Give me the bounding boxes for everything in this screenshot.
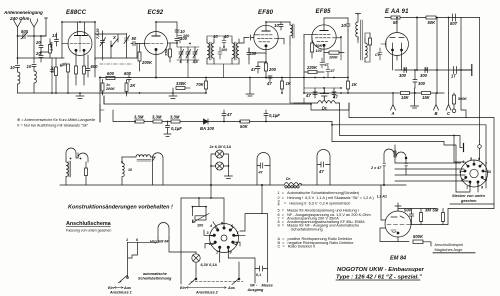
wire T1 top feeds — [207, 36, 232, 39]
ground (antenna bus) — [76, 93, 84, 99]
wire node to 1000 — [41, 36, 48, 52]
junction dots misc — [40, 17, 427, 163]
label Stecker von unten gesehen — [452, 194, 486, 203]
socket pin stubs (right socket) — [461, 160, 488, 186]
capacitor 13 — [52, 33, 59, 46]
svg-text:1 = Automatische Scharfabst: 1 = Automatische Scharfabstimmung(Schalt… — [278, 191, 361, 195]
capacitor 600 right of tube — [86, 64, 98, 77]
svg-text:10: 10 — [10, 65, 15, 70]
svg-text:Fassung von unten gesehen: Fassung von unten gesehen — [66, 229, 111, 233]
IF transformer T2 secondary coil — [237, 39, 239, 64]
wire NF output — [220, 258, 255, 283]
tube EF85 — [312, 18, 336, 62]
dial lamp 2 — [216, 162, 224, 170]
capacitor 10 (EF80 plate) — [274, 22, 283, 30]
svg-text:X: X — [112, 35, 116, 40]
wire x461 vertical — [461, 18, 466, 118]
resistor 3,3M c — [170, 115, 180, 124]
resistor 3M — [420, 208, 432, 225]
label Anschlussbeispiel Magisches Auge — [435, 243, 464, 252]
resistor 200 (EF80 cathode) — [265, 63, 277, 78]
svg-text:5 = Masse für Anodenspannun: 5 = Masse für Anodenspannung und Heizung… — [278, 208, 359, 212]
svg-text:Scharfabstimmung: Scharfabstimmung — [138, 277, 172, 281]
wire EF85 grid left — [304, 34, 312, 43]
svg-text:4: 4 — [278, 202, 280, 206]
wire EC92 grid left — [144, 43, 146, 45]
svg-text:13: 13 — [52, 33, 57, 38]
svg-text:2K: 2K — [129, 83, 136, 88]
label automatische Scharfabstimmung — [138, 272, 172, 281]
svg-text:B: B — [435, 111, 438, 116]
wire Masse riser — [240, 185, 268, 282]
ground mid1 — [246, 78, 254, 97]
wire y58 bus — [18, 57, 65, 59]
terminal circle (socket top) — [478, 141, 482, 160]
svg-text:1.000: 1.000 — [50, 41, 54, 51]
resistor 35M — [165, 43, 172, 62]
resistor 1K b — [347, 78, 358, 94]
lamp 6,3V 0,1A — [189, 252, 217, 270]
svg-text:47: 47 — [318, 169, 324, 174]
wire ground bus left — [18, 92, 207, 94]
svg-text:40: 40 — [223, 34, 229, 39]
resistor 3,3M b — [152, 115, 162, 124]
wire EF80 screen right — [278, 38, 284, 44]
wire EF80 cathode down — [249, 48, 266, 64]
svg-text:EC92: EC92 — [148, 10, 164, 16]
svg-text:X = Nur bei Ausführung mit Ska: X = Nur bei Ausführung mit Skalasatz “Sk… — [17, 124, 89, 128]
svg-text:4: 4 — [209, 224, 212, 228]
label Antenneneingang — [3, 10, 43, 21]
svg-text:4: 4 — [461, 160, 464, 164]
dashed link Anschluss 2 — [191, 281, 243, 283]
svg-text:200: 200 — [268, 67, 277, 72]
capacitor 10 (ratio det) — [341, 18, 350, 31]
svg-text:2 x 47: 2 x 47 — [370, 166, 382, 170]
svg-text:Aus: Aus — [227, 286, 235, 290]
junction dots stair — [331, 124, 455, 137]
choke Dr. (HF) — [294, 101, 340, 111]
svg-text:10: 10 — [27, 64, 32, 69]
capacitor 300 mid — [413, 70, 426, 88]
svg-text:= Heizung II 6,3 V 0,2 A s: = Heizung II 6,3 V 0,2 A symmetrisch — [284, 202, 350, 206]
terminal T (ratio det top) — [356, 14, 361, 16]
wire bus stair y141.5 — [332, 142, 456, 193]
IF transformer T2 primary coil — [232, 39, 236, 64]
switch Anschluss 2 (left blade) — [189, 270, 197, 285]
svg-text:2 = Heizung I 6,3 V 1,1 A: 2 = Heizung I 6,3 V 1,1 A ( mit Skalasat… — [278, 196, 375, 200]
capacitor 50 (EC92 grid) — [131, 36, 145, 46]
resistor 50K/100 (EF85 grid) — [311, 37, 323, 58]
terminal C — [446, 93, 451, 116]
resistor 3,3M a — [134, 115, 144, 124]
wire bus y93 right — [304, 92, 444, 94]
svg-text:EF85: EF85 — [316, 9, 332, 15]
capacitor 100 h — [178, 34, 190, 43]
grid cap EF80 — [239, 35, 254, 43]
resistor ratio det — [369, 33, 372, 50]
wire tuner verticals — [95, 31, 127, 60]
IF transformer T1 secondary coil — [212, 34, 219, 64]
wire socket bottom — [456, 182, 478, 192]
capacitor 40 — [222, 34, 229, 47]
title NOGOTON — [336, 267, 425, 280]
wire EM84 grid left from bus — [365, 207, 392, 228]
svg-text:Anschluss 2: Anschluss 2 — [195, 291, 219, 295]
trimmer 3.5 — [193, 47, 199, 64]
resistor 100K — [324, 51, 344, 60]
tube EAA91 — [381, 33, 409, 56]
svg-text:600: 600 — [124, 71, 132, 76]
resistor 2K — [125, 80, 136, 96]
wire Hzg loop legs — [128, 238, 197, 252]
svg-text:50K: 50K — [240, 124, 249, 129]
annotation left (antenna notes) — [17, 118, 95, 128]
ground (lamps) — [224, 176, 232, 179]
terminal B — [434, 93, 439, 116]
junction dots frame — [192, 197, 212, 207]
svg-text:Ein: Ein — [180, 286, 186, 290]
tube EM84 (magic eye) — [385, 203, 411, 237]
wire bus stair x339.5 — [340, 103, 466, 162]
trimmer capacitor 500 — [18, 29, 35, 39]
capacitor 10 (right) — [27, 64, 37, 69]
svg-text:6,3V 0,1A: 6,3V 0,1A — [201, 263, 218, 267]
junction dots EC92 — [99, 21, 178, 78]
diode BA100 — [200, 119, 215, 131]
resistor 5M — [433, 208, 445, 225]
svg-text:0,1µF: 0,1µF — [269, 113, 280, 118]
svg-text:40: 40 — [212, 34, 218, 39]
svg-text:3,3M: 3,3M — [134, 115, 144, 120]
wire lamp rails — [211, 154, 228, 185]
ratio det primary coil — [356, 14, 358, 40]
svg-text:Magisches Auge: Magisches Auge — [435, 248, 463, 252]
svg-text:automatische: automatische — [143, 272, 167, 276]
svg-text:335K: 335K — [176, 81, 187, 86]
wire x62 vertical — [61, 22, 63, 58]
wire y70 row — [395, 69, 457, 71]
capacitor 10 (left) — [10, 65, 20, 70]
svg-text:BA 100: BA 100 — [200, 126, 215, 131]
svg-text:10: 10 — [341, 23, 346, 28]
svg-text:E AA 91: E AA 91 — [385, 9, 409, 15]
wire EAA91 to top — [385, 18, 397, 33]
svg-text:200K: 200K — [105, 87, 115, 91]
socket Anschlussschema (bottom middle) — [207, 222, 240, 255]
wire bus stair x332 — [332, 122, 486, 189]
svg-text:100K: 100K — [329, 56, 338, 60]
wire x304 vertical — [303, 37, 305, 93]
tube EC92 — [145, 22, 168, 78]
svg-text:7,5-20: 7,5-20 — [96, 28, 100, 39]
wire ratio det connects — [358, 33, 370, 62]
capacitor 300 b — [420, 68, 428, 79]
wire mid-row right — [384, 145, 406, 185]
wire screen EF85 — [336, 38, 341, 60]
svg-text:50T: 50T — [450, 21, 458, 26]
choke Dr 2 (00000) — [284, 177, 302, 188]
wire antenna 1 down — [17, 27, 19, 64]
capacitor C7 — [375, 48, 382, 60]
svg-text:Stecker von unten: Stecker von unten — [452, 194, 486, 198]
terminal A — [391, 93, 396, 116]
wire choke left vertical — [290, 44, 304, 103]
capacitor 300 a — [399, 68, 407, 79]
svg-text:Type : 126 42 / 61 “Z - spezia: Type : 126 42 / 61 “Z - spezial.” — [336, 274, 422, 280]
capacitor big (electrolytic) — [320, 88, 329, 100]
terminal jack — [457, 65, 472, 76]
svg-text:600: 600 — [91, 64, 99, 69]
ground (335K) — [169, 88, 177, 99]
capacitor 47 (decoupling row right) — [332, 88, 338, 100]
svg-text:500K: 500K — [458, 97, 467, 101]
wire y110 bus left — [100, 104, 104, 110]
wire y43 grid row — [168, 42, 178, 44]
loop Hzg EM84 — [150, 223, 169, 244]
wire auto tuning frame — [181, 185, 224, 284]
resistor 600 horizontal — [106, 71, 115, 80]
switch Anschluss 1 — [108, 238, 139, 295]
resistor 15K b — [422, 92, 431, 101]
loop pair left (heater winding) — [66, 148, 88, 162]
wire 500K right to text — [423, 242, 431, 246]
svg-text:47: 47 — [332, 95, 338, 100]
resistor 500K (right) — [452, 93, 467, 113]
capacitor 600 — [124, 71, 132, 82]
tube EF80 — [254, 22, 278, 62]
loop with capacitor 47 (mid row) — [257, 153, 270, 185]
svg-text:0,1: 0,1 — [256, 273, 261, 277]
wire coil2 — [122, 156, 131, 158]
ratio detector transformer core — [361, 20, 363, 60]
wire y104 bus — [104, 96, 349, 110]
dashed mechanical link — [100, 63, 132, 65]
coil antenna 2 — [34, 67, 36, 94]
label Konstruktionsaenderungen — [68, 205, 173, 211]
svg-text:L3 A1: L3 A1 — [377, 195, 387, 199]
wire tuner horizontal y58 — [95, 58, 137, 60]
wire EM84 top row — [381, 185, 437, 220]
junction dots right — [392, 17, 438, 94]
junction dots x448/461 — [448, 17, 462, 71]
dial lamp 1 — [209, 145, 232, 158]
capacitor 50T — [450, 14, 458, 26]
capacitor 20 lower — [35, 51, 43, 62]
loop with 47 (Hzg loop) — [317, 150, 330, 186]
twin loop 2x47 — [370, 149, 408, 171]
coil antenna 1 — [18, 68, 20, 94]
svg-text:E88CC: E88CC — [66, 10, 87, 16]
svg-text:35M: 35M — [165, 48, 169, 56]
wire EM84 bottom — [380, 228, 409, 242]
svg-text:Ein: Ein — [108, 286, 114, 290]
resistor 220K — [304, 65, 324, 74]
svg-text:47: 47 — [305, 93, 311, 98]
svg-text:C = Ratio Detektor 0: C = Ratio Detektor 0 — [278, 245, 316, 249]
resistor 70K — [196, 78, 208, 94]
svg-text:Antenneneingang: Antenneneingang — [3, 10, 43, 15]
wire EF80 top plate — [266, 21, 290, 23]
resistor 1K a — [281, 78, 292, 94]
trimmer 6 — [179, 47, 184, 64]
svg-text:Masse: Masse — [262, 284, 273, 288]
svg-text:500: 500 — [21, 29, 29, 34]
svg-text:600: 600 — [107, 71, 115, 76]
coil set 2 vertical left — [122, 157, 124, 185]
terminal b — [34, 18, 48, 36]
capacitor 100 — [175, 36, 188, 43]
svg-text:3,3M: 3,3M — [152, 115, 162, 120]
wire x417 vertical — [416, 18, 418, 71]
svg-text:2x 6,3V 0,1A: 2x 6,3V 0,1A — [209, 145, 232, 149]
resistor 600 (cathode left) — [59, 61, 69, 77]
svg-text:500K: 500K — [413, 234, 424, 239]
wire antenna 2 down — [33, 27, 35, 63]
svg-text:15K: 15K — [401, 95, 410, 100]
svg-text:50: 50 — [132, 36, 137, 41]
wire x95 vertical tuner — [94, 34, 96, 77]
wire heater bus y185 — [60, 184, 406, 186]
wire x437 vertical — [436, 18, 438, 94]
capacitor 47 (bus) — [266, 76, 272, 86]
svg-text:Hzg EM 84: Hzg EM 84 — [150, 240, 168, 244]
label Anschlussschema — [66, 221, 112, 233]
resistor 50K (bus B) — [240, 120, 250, 129]
wire top E88CC — [62, 21, 95, 23]
resistor 1.000 — [49, 39, 54, 58]
wire EM84 plate row — [411, 209, 494, 225]
capacitor 0,1 (bottom) — [255, 266, 268, 277]
wire right edge x479.5 — [479, 18, 481, 142]
ground (A-B) — [411, 88, 419, 108]
junction dots EF80 — [265, 21, 267, 78]
junction dots bus B — [167, 121, 267, 123]
svg-text:EM 84: EM 84 — [390, 256, 407, 262]
capacitor T1 100 — [218, 47, 228, 59]
IF transformer T1 primary coil — [207, 39, 211, 64]
svg-text:50K: 50K — [316, 44, 323, 48]
switch X (band switch) — [111, 35, 118, 47]
capacitor 0,1uF (bus B right) — [264, 110, 280, 122]
wire x100 vertical — [99, 78, 101, 123]
resistor 15K a — [401, 92, 410, 101]
svg-text:1: 1 — [126, 238, 128, 242]
svg-text:10: 10 — [274, 23, 279, 28]
svg-text:Ausgang: Ausgang — [247, 288, 265, 292]
wire socket2 connections — [204, 222, 245, 262]
capacitor 47 (under 220K) — [326, 66, 336, 78]
capacitor 0,1uF (3,3M bus) — [164, 122, 182, 137]
svg-text:Anschlußbeispiel: Anschlußbeispiel — [435, 243, 464, 247]
wire EF85 plate top — [324, 17, 348, 19]
wire cathode bottom — [68, 77, 84, 93]
svg-text:0,1µF: 0,1µF — [171, 126, 182, 131]
svg-text:100: 100 — [183, 34, 190, 38]
ratio det secondary coil — [365, 39, 367, 62]
svg-text:20: 20 — [35, 40, 41, 45]
svg-text:300: 300 — [399, 73, 407, 78]
svg-text:300: 300 — [420, 73, 428, 78]
wire ratio det left leg — [347, 31, 349, 78]
svg-text:220K: 220K — [306, 65, 318, 70]
svg-text:gesehen: gesehen — [460, 199, 477, 203]
svg-text:NOGOTON UKW - Einbausuper: NOGOTON UKW - Einbausuper — [337, 267, 425, 273]
wire socket left feeds — [395, 151, 468, 181]
svg-text:15K: 15K — [422, 95, 431, 100]
svg-text:100: 100 — [316, 49, 323, 53]
svg-text:47: 47 — [266, 81, 272, 86]
capacitor 47 (EF85 k) — [320, 58, 330, 68]
antenna terminal 2 — [31, 19, 38, 27]
capacitor 20 upper — [35, 36, 43, 52]
svg-text:A: A — [391, 111, 395, 116]
coil (heater trafo) with core — [66, 160, 71, 185]
thermistor 100 (auto tuning) — [193, 214, 210, 228]
capacitor (cathode) — [50, 58, 54, 93]
coil set 2 loop right — [128, 153, 163, 185]
resistor 335K — [176, 81, 190, 90]
svg-text:Anschluss 1: Anschluss 1 — [109, 291, 132, 295]
svg-text:100: 100 — [197, 224, 204, 228]
wire y88 row — [304, 87, 341, 89]
wire top bus y77 — [100, 77, 348, 79]
svg-text:240 Ohm: 240 Ohm — [9, 16, 29, 21]
capacitor 47 (bus B) — [222, 110, 232, 122]
junction dots bus y93 — [51, 92, 349, 94]
label L3 A1 — [377, 195, 387, 199]
wire y47 top of trimmers — [177, 43, 199, 78]
wire bus B (3,3M line y121.5) — [113, 110, 332, 122]
antenna terminal 1 — [14, 19, 21, 27]
coil set 2 horizontal — [131, 155, 155, 161]
junction dots bus y77.5 — [99, 77, 349, 79]
svg-text:Konstruktionsänderungen vorbeh: Konstruktionsänderungen vorbehalten ! — [68, 205, 173, 211]
wire bus A (y117.5) — [349, 103, 494, 209]
resistor 50K (cathode bias) — [51, 58, 58, 93]
wire top right bus y17.5 — [385, 17, 480, 19]
wire E88CC pins down — [87, 55, 89, 64]
svg-text:47: 47 — [250, 67, 256, 72]
resistor 50 — [391, 16, 400, 25]
resistor (pin right) — [83, 66, 86, 78]
svg-text:50K: 50K — [428, 20, 437, 25]
tube E88CC — [62, 22, 92, 66]
junction dots heater bus — [210, 184, 385, 186]
trimmer capacitor C — [124, 33, 130, 45]
jack terminal (socket area) — [463, 144, 465, 152]
capacitor 1T — [451, 67, 457, 79]
svg-text:100: 100 — [221, 48, 228, 52]
wire E88CC plate top — [62, 22, 95, 44]
svg-text:47: 47 — [226, 112, 232, 117]
wire x137 vertical — [136, 44, 138, 59]
resistor 50K — [426, 16, 436, 25]
svg-text:EF80: EF80 — [258, 10, 274, 16]
socket Stecker (right) — [459, 157, 492, 190]
legend text block — [278, 191, 375, 249]
capacitor 47 (decoupling row left) — [305, 88, 317, 98]
svg-text:300: 300 — [418, 81, 426, 86]
svg-text:Aus: Aus — [123, 286, 131, 290]
wire x448.5 vertical (C feed) — [448, 18, 450, 94]
svg-text:1: 1 — [466, 186, 468, 190]
capacitor 10 (EC92 plate) — [175, 29, 185, 37]
capacitor 30 — [247, 48, 257, 58]
svg-text:30: 30 — [252, 51, 257, 56]
wire EAA91 pins down — [393, 51, 427, 70]
svg-text:70K: 70K — [196, 82, 205, 87]
